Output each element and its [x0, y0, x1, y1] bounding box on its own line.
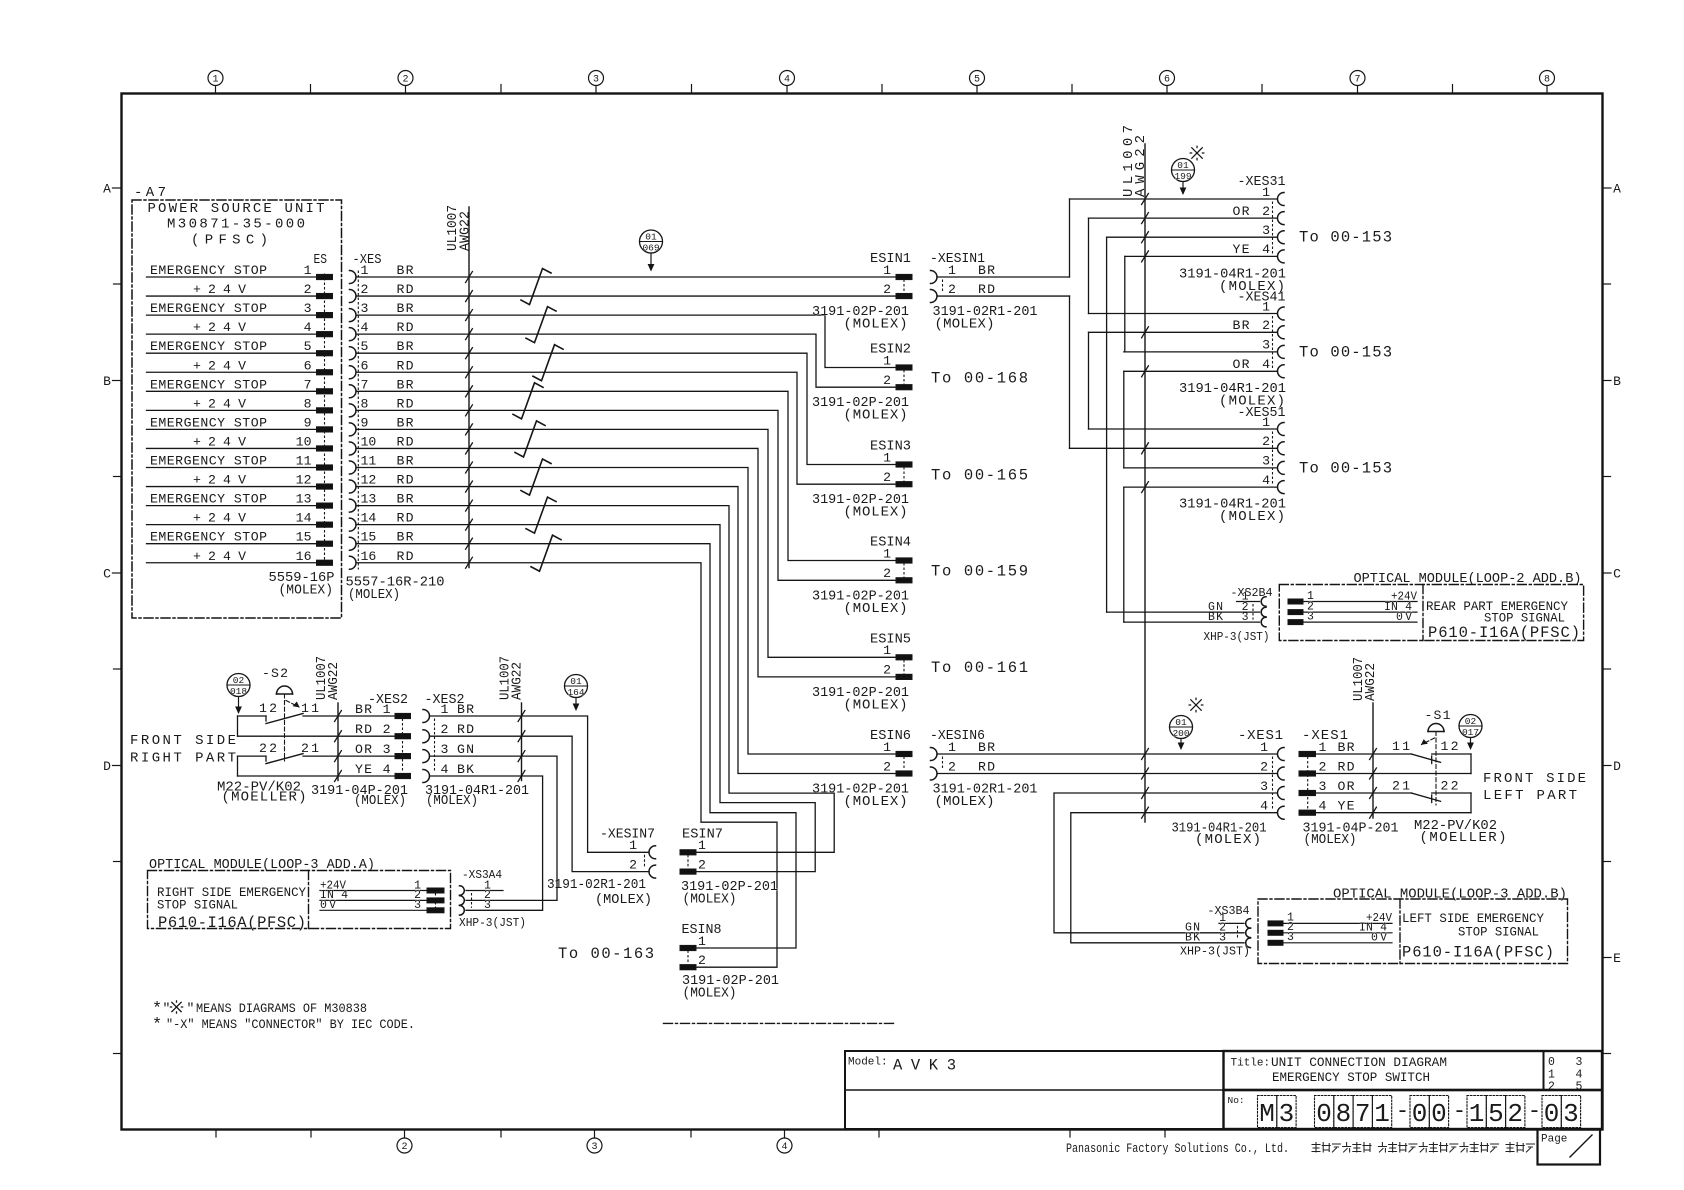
- svg-text:RD: RD: [1338, 759, 1355, 774]
- cable UL1007 AWG22 label (right bundle): [1121, 125, 1149, 197]
- wire -XES2.2 RD to -XESIN7.2: [430, 736, 650, 871]
- svg-text:EMERGENCY STOP: EMERGENCY STOP: [150, 415, 267, 430]
- svg-text:(MOLEX): (MOLEX): [683, 986, 737, 1002]
- svg-text:12: 12: [361, 473, 377, 488]
- connector -XES2 receptacle dotted line: [434, 719, 436, 773]
- svg-text:017: 017: [1462, 727, 1479, 738]
- svg-text:2: 2: [698, 953, 706, 968]
- svg-text:2: 2: [1260, 759, 1268, 774]
- svg-text:1: 1: [629, 838, 637, 853]
- svg-text:BR: BR: [397, 454, 414, 469]
- wire -XES41.3: [1124, 351, 1277, 353]
- svg-text:-: -: [1528, 1099, 1541, 1124]
- optical module A terminal 2 IN 4: [320, 889, 444, 903]
- connector ESIN6 pin 1: [883, 740, 912, 757]
- wire PSU row 16 to ESIN8.2: [356, 563, 777, 967]
- cable bundle line (PSU): [468, 207, 470, 568]
- reference 01/164 to -XES2 wires: [565, 675, 588, 712]
- hash marks S1 bundle: [1370, 749, 1377, 819]
- wire PSU row 11 to ESIN6.1: [356, 468, 896, 755]
- -XES socket contact 15: [350, 537, 357, 550]
- wire PSU row 6 to ESIN3.2: [356, 372, 896, 484]
- svg-text:A: A: [103, 182, 111, 197]
- svg-text:02: 02: [1465, 716, 1477, 727]
- connector -XES51 part 3191-04R1-201 (MOLEX): [1179, 497, 1286, 526]
- svg-text:P610-I16A(PFSC): P610-I16A(PFSC): [158, 914, 306, 932]
- switch -S2 actuator dashed link: [285, 694, 300, 761]
- svg-text:RD: RD: [397, 511, 414, 526]
- optical module B terminals: [1288, 590, 1417, 625]
- svg-text:(MOLEX): (MOLEX): [935, 317, 995, 333]
- connector -XES51 contact 1: [1262, 415, 1284, 436]
- -XES socket contact 11: [350, 461, 357, 474]
- connector -XESIN7 contact 2: [629, 857, 655, 878]
- connector ESIN4 pin 1: [883, 546, 912, 563]
- -XES socket contact 16: [350, 556, 357, 569]
- optical module C text: [1402, 911, 1554, 962]
- svg-text:2: 2: [883, 373, 891, 388]
- -XES pin 12 number and colour: [361, 473, 414, 488]
- svg-text:BR: BR: [397, 377, 414, 392]
- svg-text:8: 8: [304, 396, 312, 411]
- svg-text:8: 8: [1544, 75, 1550, 86]
- -XES socket contact 12: [350, 480, 357, 493]
- connector -XES41 contact 3: [1262, 338, 1284, 359]
- connector ESIN3 dotted line: [903, 468, 905, 482]
- svg-text:1: 1: [1374, 1099, 1390, 1129]
- wire -XES1.4 to -XS3B4.3: [1071, 813, 1277, 943]
- svg-text:2: 2: [1507, 1099, 1523, 1129]
- company name japanese: [1312, 1143, 1534, 1153]
- svg-text:1: 1: [361, 263, 369, 278]
- svg-text:ES: ES: [314, 252, 328, 268]
- wire -XES2.3 to -XES2.4 loop: [237, 756, 239, 776]
- svg-text:2: 2: [1548, 1081, 1555, 1094]
- connector -XES2 plug pins: [355, 702, 411, 779]
- svg-text:STOP SIGNAL: STOP SIGNAL: [1458, 925, 1539, 940]
- connector ESIN3 pin 2: [883, 470, 912, 487]
- reference mark kome (01/199): [1190, 146, 1204, 160]
- connector -XES51 contact 4: [1262, 473, 1284, 494]
- optical module LOOP-3 ADD.A divider: [308, 871, 310, 929]
- connector -XS3A4 contact 3: [460, 899, 492, 915]
- svg-text:5: 5: [1576, 1081, 1583, 1094]
- wire -XES1.1 to -XES1.2 loop: [1470, 754, 1472, 774]
- svg-text:(MOLEX): (MOLEX): [935, 794, 995, 810]
- PSU row 2 label and wire: [147, 282, 317, 297]
- connector ESIN1 pin 2: [883, 282, 912, 299]
- svg-text:7: 7: [361, 377, 369, 392]
- svg-text:6: 6: [1164, 75, 1170, 86]
- svg-text:3: 3: [361, 301, 369, 316]
- connector ESIN1 pin 1: [883, 263, 912, 280]
- reference 01/200 to -XES1 wires: [1170, 716, 1193, 751]
- svg-text:12: 12: [296, 473, 312, 488]
- svg-text:BR: BR: [457, 702, 474, 717]
- title block model box: [845, 1051, 1224, 1129]
- svg-text:Panasonic Factory Solutions Co: Panasonic Factory Solutions Co., Ltd.: [1066, 1141, 1289, 1156]
- svg-text:RD: RD: [397, 549, 414, 564]
- wire -XES1.2: [1316, 773, 1472, 775]
- wire -XES31.4: [1125, 255, 1277, 257]
- PSU connector ES pin 4: [317, 332, 333, 337]
- svg-text:RD: RD: [397, 473, 414, 488]
- svg-text:XHP-3(JST): XHP-3(JST): [1204, 630, 1270, 644]
- PSU connector ES pin 2: [317, 293, 333, 298]
- -XES socket contact 10: [350, 442, 357, 455]
- wire PSU row 4 to ESIN2.2: [356, 334, 896, 387]
- svg-text:2: 2: [883, 566, 891, 581]
- -XES dotted line: [357, 271, 359, 569]
- svg-text:Page: Page: [1541, 1134, 1567, 1146]
- connector -XES41 dotted line: [1272, 317, 1274, 369]
- connector ESIN2 pin 2: [883, 373, 912, 390]
- wire -XS2B4.2 GN: [1107, 611, 1260, 613]
- separator dash-dot line: [664, 1022, 895, 1024]
- svg-text:2: 2: [948, 282, 956, 297]
- svg-text:3: 3: [1563, 1099, 1579, 1129]
- connector ESIN4 pin 2: [883, 566, 912, 583]
- svg-text:"-X" MEANS "CONNECTOR" BY IEC: "-X" MEANS "CONNECTOR" BY IEC CODE.: [166, 1017, 415, 1032]
- hash marks right bundle upper: [1142, 194, 1149, 493]
- svg-text:STOP SIGNAL: STOP SIGNAL: [157, 898, 238, 913]
- location label FRONT SIDE LEFT PART: [1483, 771, 1586, 804]
- connector ESIN1 part number 3191-02P-201 (MOLEX): [812, 304, 909, 333]
- switch -S2 mushroom head: [277, 686, 293, 694]
- -XES pin 9 number and colour: [361, 415, 414, 430]
- svg-text:BR: BR: [1338, 740, 1355, 755]
- reference 01/069 to ESIN wires: [640, 230, 663, 272]
- svg-text:(MOLEX): (MOLEX): [595, 892, 652, 908]
- svg-text:0: 0: [1544, 1099, 1560, 1129]
- connector -XESIN6 contact 2: [931, 759, 996, 780]
- PSU row 15 label and wire: [147, 530, 317, 545]
- PSU row 14 label and wire: [147, 511, 317, 526]
- svg-text:To 00-153: To 00-153: [1299, 459, 1392, 477]
- svg-text:EMERGENCY STOP: EMERGENCY STOP: [150, 492, 267, 507]
- optical module LOOP-3 ADD.A box: [148, 871, 451, 929]
- page box: [1538, 1130, 1601, 1165]
- svg-text:0: 0: [1548, 1056, 1555, 1069]
- svg-text:2: 2: [402, 75, 408, 86]
- -XES pin 6 number and colour: [361, 358, 414, 373]
- switch -S2 contact 21-22: [238, 741, 396, 764]
- svg-text:5: 5: [974, 75, 980, 86]
- connector ESIN3 pin 1: [883, 450, 912, 467]
- svg-text:RD: RD: [397, 358, 414, 373]
- connector ESIN8 pin 1: [680, 934, 706, 951]
- switch -S1 mushroom head: [1428, 724, 1444, 732]
- PSU row 10 label and wire: [147, 434, 317, 449]
- wire -XESIN6.1 onward: [937, 753, 1277, 755]
- svg-text:1: 1: [883, 643, 891, 658]
- wire PSU row 3 to ESIN2.1: [356, 315, 896, 367]
- svg-text:2: 2: [883, 282, 891, 297]
- svg-text:RD: RD: [397, 320, 414, 335]
- svg-text:BK: BK: [1185, 932, 1200, 945]
- wire PSU row 8 to ESIN4.2: [356, 410, 896, 580]
- PSU row 16 label and wire: [147, 549, 317, 564]
- connector ESIN5 pin 1: [883, 643, 912, 660]
- power source unit title: [148, 201, 325, 249]
- svg-text:15: 15: [361, 530, 377, 545]
- svg-text:13: 13: [361, 492, 377, 507]
- svg-text:4: 4: [784, 75, 790, 86]
- svg-text:2: 2: [441, 722, 449, 737]
- svg-text:RD: RD: [978, 759, 995, 774]
- svg-text:OR: OR: [1233, 357, 1250, 372]
- svg-text:5: 5: [361, 339, 369, 354]
- connector ESIN6 part number 3191-02P-201 (MOLEX): [812, 782, 909, 811]
- PSU connector ES pin 11: [317, 465, 333, 470]
- connector ESIN2 dotted line: [903, 371, 905, 385]
- svg-text:MEANS DIAGRAMS OF M30838: MEANS DIAGRAMS OF M30838: [196, 1001, 367, 1016]
- switch -S1 actuator dashed link: [1421, 732, 1436, 806]
- svg-text:To 00-159: To 00-159: [931, 562, 1028, 580]
- svg-text:01: 01: [645, 231, 657, 242]
- svg-text:5: 5: [304, 339, 312, 354]
- svg-text:AWG22: AWG22: [1363, 663, 1379, 701]
- svg-text:OPTICAL MODULE(LOOP-3 ADD.B): OPTICAL MODULE(LOOP-3 ADD.B): [1333, 887, 1567, 903]
- PSU row 4 label and wire: [147, 320, 317, 335]
- connector ESIN8 part number 3191-02P-201 (MOLEX): [682, 973, 779, 1002]
- note: kome mark meaning: [152, 1000, 367, 1019]
- svg-text:3: 3: [1319, 779, 1327, 794]
- svg-text:3191-02R1-201: 3191-02R1-201: [547, 877, 646, 893]
- connector -XESIN7 contact 1: [629, 838, 655, 859]
- svg-text:EMERGENCY STOP: EMERGENCY STOP: [150, 301, 267, 316]
- svg-text:9: 9: [361, 415, 369, 430]
- reference mark kome (01/200): [1189, 698, 1203, 712]
- connector -XS3A4 contact 2: [460, 889, 492, 905]
- PSU row 12 label and wire: [147, 473, 317, 488]
- wire -XES31.1: [1070, 198, 1278, 200]
- wire PSU row 15 to ESIN8.1: [356, 544, 796, 948]
- svg-text:(MOLEX): (MOLEX): [348, 587, 400, 603]
- svg-text:OR: OR: [355, 742, 372, 757]
- svg-text:BR: BR: [355, 702, 372, 717]
- svg-text:4: 4: [1262, 357, 1270, 372]
- wire -XES31.4 to -XES41.3 riser: [1124, 256, 1126, 352]
- svg-text:E: E: [1613, 951, 1621, 966]
- connector -XESIN1 part number 3191-02R1-201 (MOLEX): [933, 304, 1038, 333]
- -XES pin 7 number and colour: [361, 377, 414, 392]
- optical module C terminals: [1268, 912, 1392, 946]
- connector -XES31 contact 1: [1262, 185, 1284, 206]
- PSU connector ES pin 7: [317, 389, 333, 394]
- connector -XES2 plug part 3191-04P-201 (MOLEX): [311, 783, 408, 809]
- svg-text:4: 4: [1319, 799, 1327, 814]
- svg-text:RD: RD: [457, 722, 474, 737]
- -XES pin 4 number and colour: [361, 320, 414, 335]
- power source unit box: [132, 200, 342, 618]
- optical module LOOP-2 ADD.B box: [1279, 585, 1583, 641]
- svg-text:-: -: [1453, 1099, 1466, 1124]
- svg-text:EMERGENCY STOP: EMERGENCY STOP: [150, 339, 267, 354]
- svg-text:EMERGENCY STOP: EMERGENCY STOP: [150, 530, 267, 545]
- connector ESIN2 pin 1: [883, 353, 912, 370]
- svg-text:0: 0: [1316, 1099, 1332, 1129]
- PSU row 5 label and wire: [147, 339, 317, 354]
- svg-text:3: 3: [414, 899, 421, 912]
- connector -XS3A4 contact 1: [460, 879, 504, 895]
- svg-text:No:: No:: [1228, 1095, 1245, 1106]
- location label FRONT SIDE RIGHT PART: [130, 733, 236, 767]
- svg-text:(MOLEX): (MOLEX): [844, 317, 908, 333]
- svg-text:-A7: -A7: [134, 185, 166, 201]
- wire ESIN1.2 dropper to -XES51.2: [1069, 296, 1071, 448]
- optical module B text: [1426, 599, 1580, 642]
- svg-text:To 00-163: To 00-163: [558, 945, 654, 963]
- svg-text:7: 7: [304, 377, 312, 392]
- svg-text:5: 5: [1488, 1099, 1504, 1129]
- svg-text:AWG22: AWG22: [510, 662, 526, 700]
- -XES socket contact 6: [350, 366, 357, 379]
- connector ESIN8 dotted line: [687, 951, 689, 964]
- svg-text:3: 3: [1262, 223, 1270, 238]
- connector ESIN6 dotted line: [903, 757, 905, 771]
- wire -XES51.4 to -XS2B4.3 riser: [1123, 487, 1125, 622]
- wire -XES2.1 BR to -XESIN7.1: [430, 716, 650, 852]
- wire PSU row 2 to ESIN1.2: [356, 295, 896, 297]
- PSU connector ES pin 3: [317, 313, 333, 318]
- wire -XES41.2 to -XES51.1 riser: [1088, 332, 1090, 429]
- svg-text:6: 6: [304, 358, 312, 373]
- svg-text:BR: BR: [397, 530, 414, 545]
- svg-text:1: 1: [383, 702, 391, 717]
- svg-text:2: 2: [1262, 318, 1270, 333]
- wire -XESIN1.2 onward: [937, 295, 1070, 297]
- svg-text:UNIT CONNECTION DIAGRAM: UNIT CONNECTION DIAGRAM: [1271, 1055, 1447, 1070]
- svg-text:1: 1: [1262, 415, 1270, 430]
- cable UL1007 AWG22 label (S2 right): [498, 656, 526, 700]
- connector -XESIN1 contact 2: [931, 282, 996, 303]
- svg-text:EMERGENCY STOP: EMERGENCY STOP: [150, 263, 267, 278]
- svg-text:POWER SOURCE UNIT: POWER SOURCE UNIT: [148, 201, 325, 217]
- svg-text:BR: BR: [978, 740, 995, 755]
- hash marks S2 right bundle: [518, 711, 525, 782]
- optical module A terminal 1 +24V: [320, 879, 444, 893]
- -XES socket contact 2: [350, 290, 357, 303]
- svg-text:16: 16: [361, 549, 377, 564]
- svg-text:RD: RD: [978, 282, 995, 297]
- title block number box: [1224, 1090, 1603, 1129]
- wire -XES51.3: [1124, 467, 1277, 469]
- svg-text:D: D: [103, 759, 111, 774]
- svg-text:To 00-168: To 00-168: [931, 369, 1028, 387]
- svg-text:M: M: [1259, 1099, 1275, 1129]
- svg-text:2: 2: [1262, 204, 1270, 219]
- wire -XES41.4 to -XES51.3 riser: [1123, 371, 1125, 468]
- svg-text:8: 8: [361, 396, 369, 411]
- svg-text:To 00-153: To 00-153: [1299, 229, 1392, 247]
- drawing border frame: [122, 94, 1603, 1130]
- wire -XESIN1.1 onward: [937, 276, 1070, 278]
- svg-text:2: 2: [698, 857, 706, 872]
- svg-text:069: 069: [642, 243, 659, 254]
- svg-text:D: D: [1613, 759, 1621, 774]
- wire -XES51.2: [1070, 447, 1278, 449]
- svg-text:(MOLEX): (MOLEX): [1195, 832, 1261, 848]
- svg-text:4: 4: [1262, 242, 1270, 257]
- svg-text:02: 02: [233, 675, 245, 686]
- svg-text:14: 14: [296, 511, 312, 526]
- connector -XES41 part 3191-04R1-201 (MOLEX): [1179, 381, 1286, 410]
- svg-text:1: 1: [1260, 740, 1268, 755]
- PSU connector ES pin 14: [317, 522, 333, 527]
- PSU connector ES pin 1: [317, 274, 333, 279]
- svg-text:2: 2: [361, 282, 369, 297]
- svg-text:-XS2B4: -XS2B4: [1231, 586, 1273, 600]
- svg-text:1: 1: [948, 740, 956, 755]
- svg-text:3: 3: [1279, 1099, 1295, 1129]
- cable UL1007 AWG22 label (S1): [1351, 657, 1379, 701]
- -XES pin 13 number and colour: [361, 492, 414, 507]
- -XES pin 8 number and colour: [361, 396, 414, 411]
- wire -XES31.3 to -XS2B4.2 riser: [1106, 237, 1108, 612]
- PSU row 11 label and wire: [147, 454, 317, 469]
- -XES pin 2 number and colour: [361, 282, 414, 297]
- connector -XES41 contact 1: [1262, 299, 1284, 320]
- note: -X connector meaning: [152, 1016, 415, 1035]
- wire PSU row 12 to ESIN6.2: [356, 487, 896, 774]
- -XES pin 3 number and colour: [361, 301, 414, 316]
- connector -XESIN7 dotted line: [644, 855, 646, 868]
- svg-text:3: 3: [593, 75, 599, 86]
- -XES socket contact 14: [350, 518, 357, 531]
- svg-text:EMERGENCY STOP: EMERGENCY STOP: [150, 377, 267, 392]
- connector -XESIN1 contact 1: [931, 263, 996, 284]
- svg-text:-XESIN7: -XESIN7: [600, 826, 655, 842]
- cable bundle line (right): [1144, 144, 1146, 822]
- connector -XES31 contact 3: [1262, 223, 1284, 244]
- connector -XESIN7 part number 3191-02R1-201 (MOLEX): [547, 877, 652, 908]
- svg-text:14: 14: [361, 511, 377, 526]
- svg-text:P610-I16A(PFSC): P610-I16A(PFSC): [1402, 944, 1554, 962]
- svg-text:-XS3A4: -XS3A4: [462, 868, 502, 882]
- connector -XESIN6 dotted line: [942, 757, 944, 771]
- svg-text:6: 6: [361, 358, 369, 373]
- svg-text:BR: BR: [978, 263, 995, 278]
- svg-text:4: 4: [1260, 799, 1268, 814]
- wire -XES1.3 to -XES1.4 loop: [1470, 793, 1472, 813]
- svg-text:XHP-3(JST): XHP-3(JST): [459, 916, 526, 930]
- left border row markers: [103, 182, 121, 1054]
- PSU row 1 label and wire: [147, 263, 317, 278]
- connector ESIN4 dotted line: [903, 564, 905, 578]
- connector -XES41 contact 4: [1233, 357, 1285, 378]
- connector -XES1 receptacle contacts: [1260, 740, 1284, 819]
- svg-text:3: 3: [1287, 931, 1294, 944]
- connector ESIN7 dotted line: [687, 855, 689, 868]
- svg-text:(MOLEX): (MOLEX): [1304, 832, 1357, 848]
- wire PSU row 9 to ESIN5.1: [356, 429, 896, 657]
- connector -XES2 receptacle part 3191-04R1-201 (MOLEX): [425, 783, 529, 809]
- svg-text:2: 2: [883, 470, 891, 485]
- -XES pin 15 number and colour: [361, 530, 414, 545]
- svg-text:3: 3: [484, 899, 491, 912]
- connector ESIN7 pin 1: [680, 838, 706, 855]
- wire -XS2B4.3 BK: [1124, 621, 1260, 623]
- switch -S2 contact 11-12: [238, 701, 396, 724]
- svg-text:RD: RD: [397, 396, 414, 411]
- connector -XS2B4 contact 1 stub: [1237, 590, 1267, 606]
- svg-text:RD: RD: [397, 282, 414, 297]
- svg-text:01: 01: [570, 676, 582, 687]
- svg-text:1: 1: [304, 263, 312, 278]
- svg-text:To 00-161: To 00-161: [931, 659, 1028, 677]
- wire -XES1.3 to -XS3B4.2: [1054, 793, 1277, 933]
